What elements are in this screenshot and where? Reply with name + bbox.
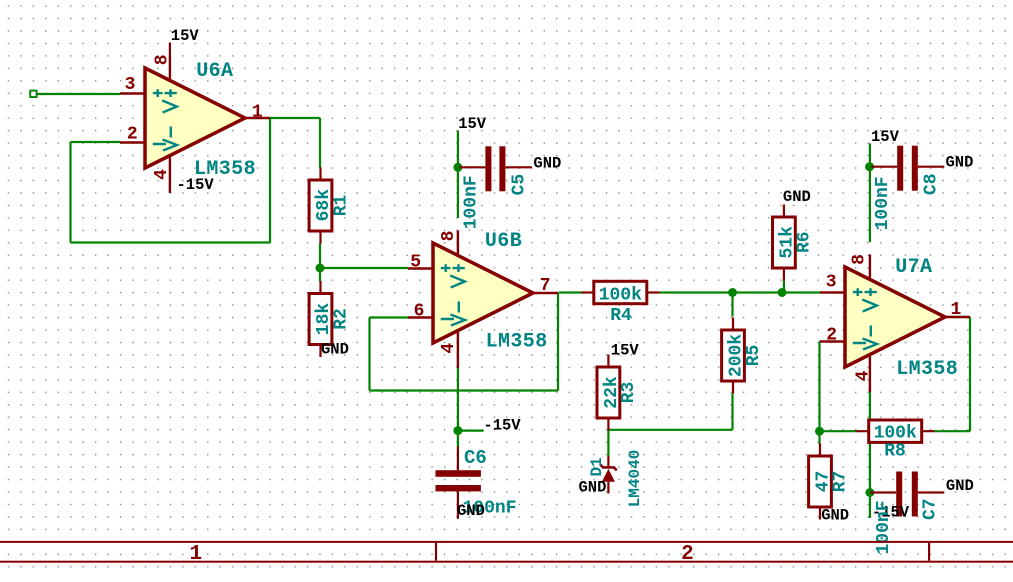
- svg-text:R3: R3: [619, 382, 639, 404]
- svg-text:100nF: 100nF: [462, 175, 482, 229]
- svg-text:4: 4: [439, 343, 459, 354]
- svg-text:1: 1: [950, 300, 961, 320]
- svg-text:LM4040: LM4040: [626, 450, 644, 508]
- svg-text:R6: R6: [795, 231, 815, 253]
- svg-text:100k: 100k: [599, 286, 642, 306]
- svg-text:R4: R4: [610, 306, 632, 326]
- svg-text:4: 4: [853, 370, 873, 381]
- svg-text:U6B: U6B: [485, 230, 522, 253]
- svg-text:100nF: 100nF: [873, 176, 893, 230]
- svg-text:GND: GND: [321, 341, 349, 359]
- svg-text:D1: D1: [588, 457, 606, 476]
- svg-text:GND: GND: [946, 477, 974, 495]
- svg-text:1: 1: [252, 103, 263, 123]
- svg-text:3: 3: [125, 75, 136, 95]
- svg-text:8: 8: [439, 231, 459, 242]
- svg-text:2: 2: [826, 326, 837, 346]
- svg-text:7: 7: [540, 276, 551, 296]
- svg-text:U6A: U6A: [196, 60, 233, 83]
- svg-text:R1: R1: [332, 194, 352, 216]
- svg-text:GND: GND: [946, 154, 974, 172]
- svg-text:R7: R7: [831, 471, 851, 493]
- svg-text:100k: 100k: [874, 423, 917, 443]
- svg-text:3: 3: [826, 273, 837, 293]
- svg-text:GND: GND: [783, 188, 811, 206]
- svg-text:15V: 15V: [871, 128, 900, 146]
- svg-text:LM358: LM358: [896, 358, 958, 381]
- svg-text:15V: 15V: [458, 115, 487, 133]
- svg-text:GND: GND: [457, 502, 485, 520]
- svg-text:C7: C7: [921, 498, 941, 520]
- svg-text:15V: 15V: [171, 27, 200, 45]
- svg-text:R2: R2: [332, 308, 352, 330]
- svg-text:-15V: -15V: [483, 416, 521, 434]
- svg-text:GND: GND: [533, 154, 561, 172]
- svg-text:8: 8: [850, 254, 870, 265]
- svg-text:U7A: U7A: [895, 256, 932, 279]
- svg-text:100nF: 100nF: [874, 500, 894, 554]
- svg-text:15V: 15V: [611, 341, 640, 359]
- svg-text:6: 6: [414, 302, 425, 322]
- svg-text:R5: R5: [744, 345, 764, 367]
- svg-text:8: 8: [153, 54, 173, 65]
- svg-text:2: 2: [681, 543, 694, 566]
- svg-text:GND: GND: [821, 507, 849, 525]
- svg-text:LM358: LM358: [486, 331, 548, 354]
- svg-text:5: 5: [410, 253, 421, 273]
- svg-text:C8: C8: [922, 173, 942, 195]
- svg-text:C6: C6: [464, 447, 487, 469]
- svg-text:GND: GND: [579, 479, 607, 497]
- svg-text:2: 2: [127, 125, 138, 145]
- svg-text:1: 1: [189, 543, 202, 566]
- svg-text:4: 4: [152, 169, 172, 180]
- svg-text:LM358: LM358: [194, 158, 256, 181]
- svg-text:R8: R8: [884, 442, 906, 462]
- svg-text:C5: C5: [510, 174, 530, 196]
